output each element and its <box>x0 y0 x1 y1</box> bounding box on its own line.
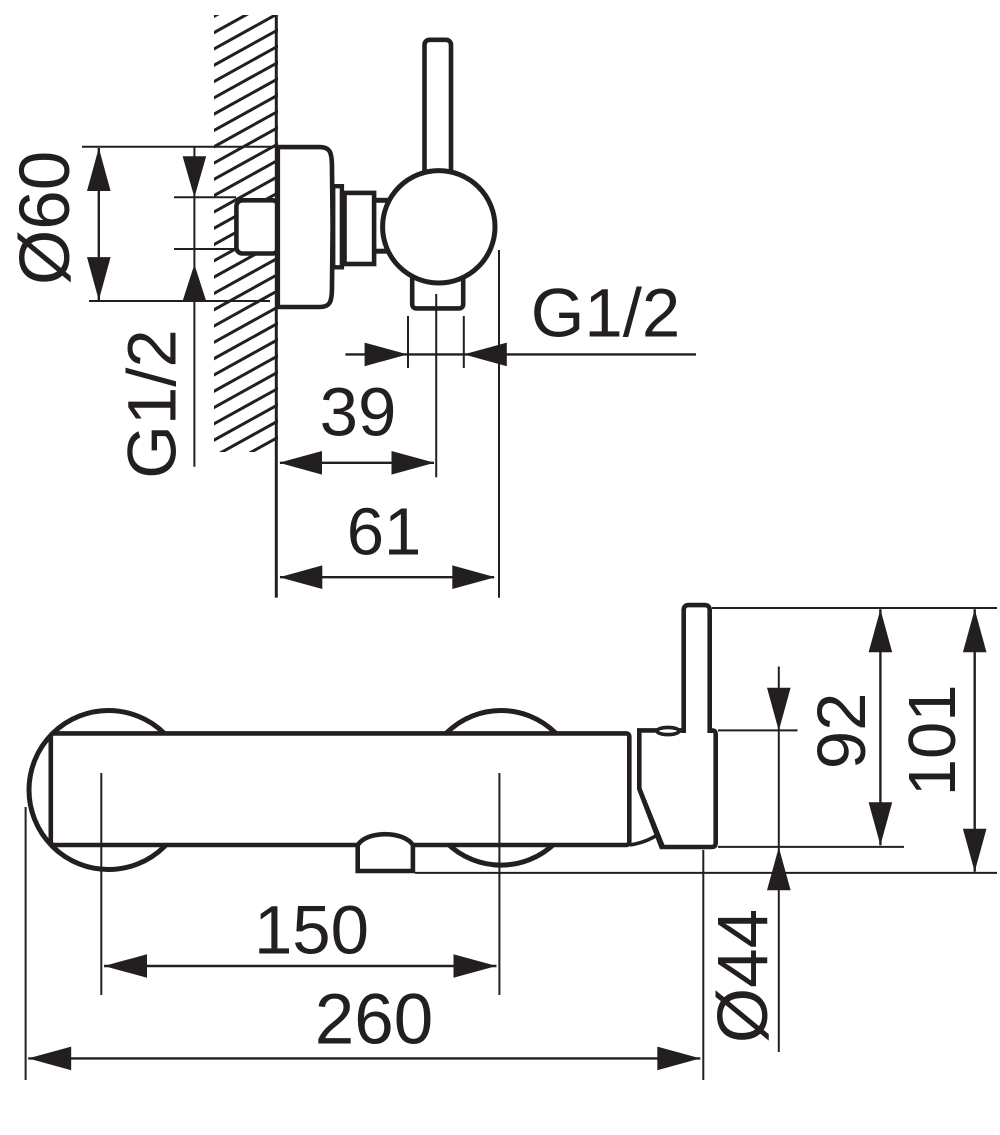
extension line bottom of plate <box>89 300 270 302</box>
extension line valve top <box>718 729 798 731</box>
left flange centerline <box>100 773 102 995</box>
extension line top of plate <box>82 146 277 148</box>
extension line outlet right <box>463 316 465 368</box>
bar bottom edge curve into valve <box>630 835 658 846</box>
right wall flange circle <box>424 711 579 866</box>
dimension 101 <box>963 609 987 871</box>
extension line rod top <box>712 607 997 609</box>
handle rod (side view) <box>425 40 452 180</box>
escutcheon cover plate <box>278 147 333 307</box>
mixer body bar <box>51 733 630 845</box>
svg-text:92: 92 <box>803 693 880 770</box>
stub top between neck and valve ball <box>374 198 388 203</box>
valve ball circle <box>383 171 495 283</box>
left wall flange circle <box>29 711 188 870</box>
extension line inlet top <box>174 196 236 198</box>
svg-text:39: 39 <box>320 374 397 451</box>
extension line outlet bottom <box>415 872 997 874</box>
wall hatching <box>213 0 278 473</box>
svg-text:G1/2: G1/2 <box>531 275 681 352</box>
joint oval on valve top <box>657 727 679 734</box>
dimension 92 <box>869 609 893 845</box>
dimension 150 <box>104 954 497 978</box>
svg-text:G1/2: G1/2 <box>113 329 190 479</box>
extension line 260 left <box>25 807 27 1080</box>
outlet centerline <box>435 294 437 477</box>
svg-text:150: 150 <box>254 892 369 969</box>
neck <box>345 193 375 264</box>
outlet spout (front view) <box>358 834 413 871</box>
svg-text:Ø44: Ø44 <box>704 909 783 1043</box>
dimension 61 <box>279 565 495 589</box>
svg-text:260: 260 <box>315 981 433 1060</box>
stub bottom between neck and valve ball <box>374 249 388 254</box>
extension line bar bottom <box>718 846 904 848</box>
spout rear diagonal edge <box>639 789 663 847</box>
dimension 39 <box>279 451 435 475</box>
outlet spout stub (side view) <box>412 250 463 308</box>
svg-text:101: 101 <box>895 685 970 797</box>
dimension 260 <box>28 1047 700 1071</box>
handle rod (front view) <box>684 605 710 733</box>
extension line 260 right <box>702 850 704 1080</box>
svg-text:61: 61 <box>347 495 422 570</box>
wall line <box>275 15 278 598</box>
extension line inlet bottom <box>174 248 236 250</box>
valve body (front view) <box>639 730 715 847</box>
dimension Ø44 line <box>767 667 791 1053</box>
extension line outlet left <box>407 316 409 368</box>
right flange centerline <box>498 773 500 995</box>
inlet square G1/2 behind wall <box>236 200 278 253</box>
svg-text:Ø60: Ø60 <box>6 151 85 285</box>
mounting collar <box>333 186 342 267</box>
dimension Ø60 line <box>87 148 111 300</box>
dimension G1/2 left line <box>183 147 207 467</box>
extension line circle right <box>498 250 500 598</box>
dimension G1/2 top line with arrows <box>345 343 696 367</box>
